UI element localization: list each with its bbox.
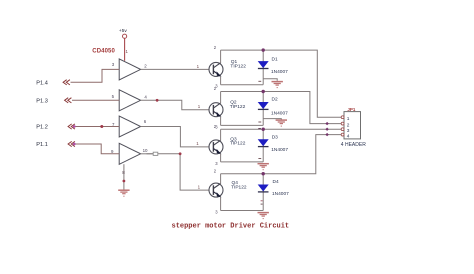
svg-text:3: 3	[347, 128, 350, 134]
svg-text:CD4050: CD4050	[92, 48, 115, 54]
svg-text:10: 10	[143, 148, 148, 153]
svg-text:P1.1: P1.1	[36, 142, 48, 148]
svg-text:P1.4: P1.4	[36, 80, 48, 86]
svg-text:TIP122: TIP122	[230, 64, 246, 70]
svg-text:1N4007: 1N4007	[271, 69, 288, 75]
svg-text:TIP122: TIP122	[231, 184, 247, 190]
svg-text:4: 4	[347, 134, 350, 140]
svg-text:D3: D3	[272, 134, 278, 140]
svg-text:1N4007: 1N4007	[271, 147, 288, 153]
svg-text:2: 2	[347, 123, 350, 129]
svg-text:P1.3: P1.3	[36, 98, 48, 104]
svg-text:TIP122: TIP122	[230, 141, 246, 147]
svg-text:4 HEADER: 4 HEADER	[341, 142, 366, 148]
svg-text:stepper motor Driver Circuit: stepper motor Driver Circuit	[172, 222, 290, 230]
svg-text:+5v: +5v	[119, 28, 128, 34]
svg-text:P1.2: P1.2	[36, 124, 48, 130]
svg-text:D4: D4	[273, 179, 279, 185]
svg-text:JP1: JP1	[347, 107, 356, 112]
svg-text:1N4007: 1N4007	[271, 111, 288, 117]
svg-text:1: 1	[347, 116, 350, 122]
svg-text:D1: D1	[272, 56, 278, 62]
svg-text:1N4007: 1N4007	[272, 191, 289, 197]
svg-text:8: 8	[122, 170, 125, 175]
svg-text:TIP122: TIP122	[230, 104, 246, 110]
svg-text:D2: D2	[272, 96, 278, 102]
